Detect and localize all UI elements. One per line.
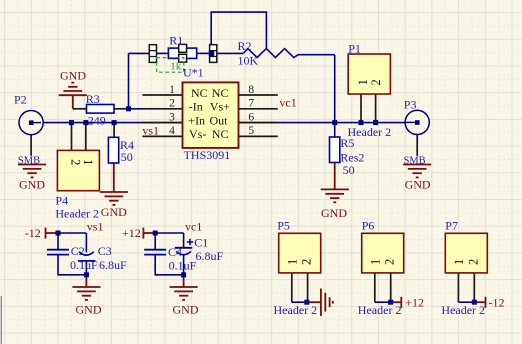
svg-text:Vs-: Vs- <box>189 127 206 141</box>
svg-text:GND: GND <box>405 177 431 191</box>
svg-text:Header 2: Header 2 <box>441 303 485 317</box>
svg-text:P1: P1 <box>348 41 361 55</box>
svg-text:+12: +12 <box>405 295 424 309</box>
svg-text:5: 5 <box>248 125 254 137</box>
svg-text:6: 6 <box>248 111 254 123</box>
svg-text:R3: R3 <box>86 92 100 106</box>
svg-text:2: 2 <box>300 259 314 265</box>
svg-text:SMB: SMB <box>18 156 40 167</box>
svg-text:P7: P7 <box>445 219 458 233</box>
svg-text:-12: -12 <box>489 295 505 309</box>
svg-text:GND: GND <box>173 303 199 317</box>
svg-text:C2: C2 <box>71 244 85 258</box>
svg-text:P5: P5 <box>277 219 290 233</box>
svg-text:6.8uF: 6.8uF <box>196 249 224 263</box>
svg-text:NC: NC <box>212 127 229 141</box>
svg-text:Header 2: Header 2 <box>55 207 99 221</box>
svg-text:Header 2: Header 2 <box>274 303 318 317</box>
svg-text:U*1: U*1 <box>183 66 204 80</box>
svg-text:SMB: SMB <box>404 156 426 167</box>
svg-text:GND: GND <box>76 303 102 317</box>
svg-text:2: 2 <box>68 159 82 165</box>
svg-text:2: 2 <box>369 79 383 85</box>
svg-text:Out: Out <box>210 113 229 127</box>
svg-text:249: 249 <box>88 114 106 128</box>
svg-text:1: 1 <box>368 259 382 265</box>
svg-text:-12: -12 <box>25 226 41 240</box>
svg-text:GND: GND <box>19 177 45 191</box>
svg-text:Vs+: Vs+ <box>210 100 230 114</box>
svg-text:-In: -In <box>189 100 203 114</box>
svg-text:NC: NC <box>191 86 208 100</box>
svg-text:P4: P4 <box>55 194 68 208</box>
svg-text:50: 50 <box>121 150 133 164</box>
svg-text:1: 1 <box>285 259 299 265</box>
svg-text:2: 2 <box>383 259 397 265</box>
svg-text:C3: C3 <box>98 244 112 258</box>
svg-text:1: 1 <box>169 84 175 96</box>
svg-text:0.1uF: 0.1uF <box>70 258 98 272</box>
svg-text:1k: 1k <box>170 61 182 73</box>
svg-text:C1: C1 <box>194 236 208 250</box>
svg-text:+In: +In <box>188 113 205 127</box>
svg-text:R1: R1 <box>169 34 183 48</box>
svg-text:GND: GND <box>321 206 347 220</box>
svg-text:THS3091: THS3091 <box>184 148 231 162</box>
svg-text:+12: +12 <box>122 226 141 240</box>
svg-text:0.1uF: 0.1uF <box>169 259 197 273</box>
svg-text:P6: P6 <box>362 219 375 233</box>
svg-text:GND: GND <box>60 68 86 82</box>
svg-text:GND: GND <box>101 205 127 219</box>
svg-text:C4: C4 <box>168 245 182 259</box>
svg-text:8: 8 <box>248 84 254 96</box>
svg-text:7: 7 <box>248 98 254 110</box>
svg-text:P3: P3 <box>404 97 417 111</box>
svg-text:Header 2: Header 2 <box>358 303 402 317</box>
svg-text:10K: 10K <box>238 54 259 68</box>
svg-text:R2: R2 <box>238 39 252 53</box>
svg-text:1: 1 <box>81 159 95 165</box>
svg-text:vc1: vc1 <box>279 95 296 109</box>
svg-text:6.8uF: 6.8uF <box>99 258 127 272</box>
svg-text:4: 4 <box>169 125 175 137</box>
svg-text:NC: NC <box>212 86 229 100</box>
svg-text:2: 2 <box>169 98 175 110</box>
svg-text:vc1: vc1 <box>185 219 202 233</box>
svg-text:2: 2 <box>466 259 480 265</box>
svg-text:50: 50 <box>343 163 355 177</box>
svg-text:vs1: vs1 <box>87 219 104 233</box>
svg-text:3: 3 <box>169 111 175 123</box>
svg-text:1: 1 <box>356 79 370 85</box>
svg-text:P2: P2 <box>14 92 27 106</box>
svg-text:1: 1 <box>452 259 466 265</box>
svg-text:vs1: vs1 <box>142 123 159 137</box>
svg-text:Header 2: Header 2 <box>348 125 392 139</box>
